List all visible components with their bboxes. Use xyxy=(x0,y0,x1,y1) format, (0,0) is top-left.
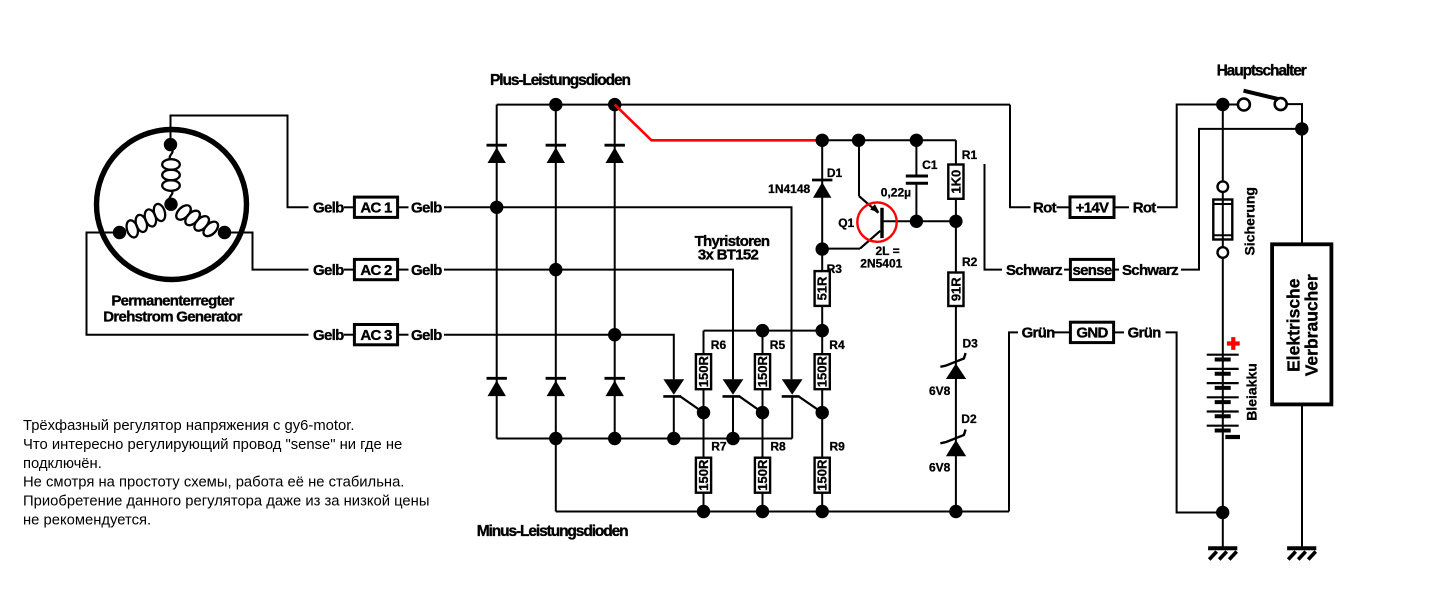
wire load box to ground xyxy=(1301,404,1303,548)
wire AC1 box to Gelb xyxy=(398,206,409,208)
wire Schwarz to sense box xyxy=(1064,269,1070,271)
svg-text:Hauptschalter: Hauptschalter xyxy=(1217,63,1307,80)
junction gate Th1 xyxy=(697,406,710,419)
svg-text:AC 2: AC 2 xyxy=(360,262,392,279)
junction AC1 col1 xyxy=(490,201,503,214)
svg-text:D1: D1 xyxy=(827,166,843,180)
generator G1 body circle xyxy=(97,130,247,280)
fuse terminal circle top xyxy=(1218,181,1229,192)
junction base row R1/R2 xyxy=(949,215,962,228)
ground symbol load xyxy=(1287,546,1316,550)
svg-text:Elektrische: Elektrische xyxy=(1283,278,1303,372)
svg-text:R7: R7 xyxy=(711,440,727,454)
svg-text:Что интересно регулирующий про: Что интересно регулирующий провод "sense… xyxy=(23,437,402,453)
svg-text:6V8: 6V8 xyxy=(929,460,951,474)
svg-text:Schwarz: Schwarz xyxy=(1122,262,1178,279)
wire R2 column xyxy=(955,221,957,511)
wire AC2 row to bridge and thyristor Th2 anode xyxy=(444,270,733,380)
wire generator top to AC1 row xyxy=(171,116,309,208)
junction minus bus x=614.7 xyxy=(608,432,621,445)
wire AC1 row to bridge and thyristor Th3 anode xyxy=(444,207,792,379)
svg-text:Gelb: Gelb xyxy=(411,327,442,344)
svg-text:R5: R5 xyxy=(770,338,786,352)
svg-text:D3: D3 xyxy=(963,337,979,351)
minus output rail xyxy=(556,511,1009,513)
svg-text:3x BT152: 3x BT152 xyxy=(698,247,759,264)
minus power diode D-3 xyxy=(605,377,625,380)
svg-text:Sicherung: Sicherung xyxy=(1241,187,1257,255)
resistor R1 1K0 xyxy=(948,165,963,199)
wire AC3 row to bridge xyxy=(444,334,615,336)
svg-text:1K0: 1K0 xyxy=(948,170,963,194)
svg-text:R9: R9 xyxy=(830,440,846,454)
wire through fuse xyxy=(1222,192,1224,247)
svg-text:Трёхфазный регулятор напряжени: Трёхфазный регулятор напряжения с gy6-mo… xyxy=(23,418,354,434)
wire Rot to +14V box xyxy=(1057,206,1071,208)
svg-text:150R: 150R xyxy=(815,459,830,491)
svg-text:Q1: Q1 xyxy=(838,216,854,230)
wire generator right to AC2 row xyxy=(225,233,309,270)
wire control rail to R1 xyxy=(955,140,957,221)
plus rail (top bus) xyxy=(497,104,1010,106)
wire switch to load rail xyxy=(1287,104,1302,245)
junction control rail D1 xyxy=(816,134,829,147)
wire generator left to AC3 row xyxy=(87,233,309,335)
svg-text:R6: R6 xyxy=(711,338,727,352)
generator terminal node left xyxy=(113,226,126,239)
junction AC2 col2 xyxy=(549,263,562,276)
fuse terminal circle bottom xyxy=(1218,247,1229,258)
battery plus sign xyxy=(1227,337,1240,350)
capacitor C1 0,22u xyxy=(915,140,917,175)
red wire from plus rail to regulator xyxy=(615,105,823,141)
wire Gruen to GND box xyxy=(1054,331,1070,333)
svg-text:Schwarz: Schwarz xyxy=(1006,262,1062,279)
svg-text:91R: 91R xyxy=(948,277,963,301)
svg-text:Bleiakku: Bleiakku xyxy=(1243,363,1259,421)
wire sense box to Schwarz xyxy=(1114,269,1119,271)
wire plus rail down to +14V row xyxy=(1010,105,1031,208)
load box Elektrische Verbraucher xyxy=(1272,244,1331,404)
svg-text:Grün: Grün xyxy=(1128,325,1162,342)
wire GND row to battery minus xyxy=(1166,332,1223,512)
svg-text:AC 1: AC 1 xyxy=(360,200,392,217)
wire phase column 2 xyxy=(555,105,557,512)
svg-text:Gelb: Gelb xyxy=(313,327,344,344)
terminal box sense xyxy=(1070,259,1113,279)
sense stub wire (unconnected) xyxy=(985,164,1003,270)
transistor Q1 2N5401 xyxy=(858,140,860,196)
terminal box GND xyxy=(1070,322,1113,342)
wire minus rail up to GND row xyxy=(1009,332,1018,511)
generator terminal node right xyxy=(218,226,231,239)
resistor R2 91R xyxy=(948,273,963,307)
wire phase column 3 xyxy=(614,105,616,439)
wire phase column 1 xyxy=(496,105,498,439)
svg-text:0,22µ: 0,22µ xyxy=(881,186,911,200)
svg-text:подключён.: подключён. xyxy=(23,456,102,472)
wire R6 column xyxy=(703,331,705,512)
svg-text:R1: R1 xyxy=(962,148,978,162)
junction gate Th2 xyxy=(756,406,769,419)
terminal box +14V xyxy=(1070,197,1114,218)
svg-text:150R: 150R xyxy=(696,356,711,388)
junction base row C1 xyxy=(910,215,923,228)
svg-text:не рекомендуется.: не рекомендуется. xyxy=(23,513,151,529)
resistor R3 51R xyxy=(815,271,830,306)
diode D1 1N4148 xyxy=(821,140,823,249)
svg-text:Rot: Rot xyxy=(1133,200,1157,217)
main switch S1 contact right xyxy=(1275,98,1287,110)
svg-text:GND: GND xyxy=(1076,325,1108,342)
svg-text:150R: 150R xyxy=(755,459,770,491)
resistor R6 150R xyxy=(696,354,711,389)
junction switch node xyxy=(1216,98,1229,111)
generator star point node xyxy=(164,198,177,211)
control rail xyxy=(822,139,956,141)
junction plus rail col2 xyxy=(549,98,562,111)
svg-text:150R: 150R xyxy=(696,459,711,491)
svg-text:2N5401: 2N5401 xyxy=(860,257,902,271)
plus power diode D+3 xyxy=(605,144,625,147)
junction minus rail x=703.5 xyxy=(697,505,710,518)
plus power diode D+1 xyxy=(487,144,507,147)
thyristor Th1 (BT152) xyxy=(663,379,684,395)
ground symbol battery xyxy=(1208,546,1237,550)
svg-text:150R: 150R xyxy=(755,356,770,388)
wire AC3 node to thyristor Th1 anode xyxy=(615,335,674,380)
svg-text:Не смотря на простоту схемы, р: Не смотря на простоту схемы, работа её н… xyxy=(23,475,404,491)
svg-text:51R: 51R xyxy=(815,276,830,300)
svg-text:Drehstrom Generator: Drehstrom Generator xyxy=(103,308,242,325)
svg-text:sense: sense xyxy=(1072,262,1111,279)
junction minus rail x=762.5 xyxy=(756,505,769,518)
resistor R9 150R xyxy=(815,458,830,493)
wire GND box to Gruen xyxy=(1114,331,1124,333)
thyristor Th2 (BT152) xyxy=(723,379,744,395)
wire fuse to battery xyxy=(1222,258,1224,549)
junction minus rail x=955.9 xyxy=(949,505,962,518)
plus power diode D+2 xyxy=(546,144,566,147)
terminal box AC3 xyxy=(354,325,397,345)
svg-text:Приобретение данного регулятор: Приобретение данного регулятора даже из … xyxy=(23,494,429,510)
svg-text:Gelb: Gelb xyxy=(313,262,344,279)
svg-text:C1: C1 xyxy=(922,158,938,172)
generator winding L1 (top coil) xyxy=(162,159,180,170)
svg-text:Plus-Leistungsdioden: Plus-Leistungsdioden xyxy=(490,72,631,89)
main switch S1 lever xyxy=(1244,91,1279,99)
battery B1 cells xyxy=(1207,354,1239,356)
svg-text:150R: 150R xyxy=(815,356,830,388)
svg-text:Gelb: Gelb xyxy=(411,262,442,279)
wire +14V box to Rot xyxy=(1114,206,1129,208)
battery minus sign xyxy=(1225,435,1240,439)
svg-text:+14V: +14V xyxy=(1076,200,1109,217)
junction D1 anode node xyxy=(816,242,829,255)
wire D1 node to R3 xyxy=(821,249,823,331)
junction control rail Q1 emitter xyxy=(852,134,865,147)
junction minus rail x=822.2 xyxy=(816,505,829,518)
junction minus bus x=673.8 xyxy=(667,432,680,445)
svg-text:6V8: 6V8 xyxy=(929,384,951,398)
main switch S1 contact left xyxy=(1238,99,1250,111)
minus diode bus xyxy=(497,438,793,440)
wire Gelb to AC1 box xyxy=(344,206,354,208)
resistor R7 150R xyxy=(696,458,711,493)
svg-text:AC 3: AC 3 xyxy=(360,327,392,344)
wire switch node to contact xyxy=(1223,104,1238,106)
junction load rail sense tap xyxy=(1295,122,1308,135)
svg-text:Verbraucher: Verbraucher xyxy=(1302,274,1322,376)
junction gate rail R5 xyxy=(756,324,769,337)
terminal box AC2 xyxy=(354,259,397,279)
zener diode D3 6V8 xyxy=(946,364,966,380)
minus power diode D-1 xyxy=(487,377,507,380)
svg-text:Permanenterregter: Permanenterregter xyxy=(111,292,234,309)
wire AC2 box to Gelb xyxy=(398,269,409,271)
fuse F1 body xyxy=(1213,200,1232,240)
wire AC3 box to Gelb xyxy=(398,334,409,336)
generator winding L2 (left coil) xyxy=(152,203,167,223)
wire R5 column xyxy=(762,331,764,512)
wire +14V to main switch xyxy=(1157,105,1223,208)
generator terminal node top xyxy=(164,138,177,151)
junction plus rail col3 xyxy=(608,98,621,111)
resistor R4 150R xyxy=(815,354,830,389)
wire switch node down to fuse xyxy=(1222,105,1224,182)
resistor R5 150R xyxy=(755,354,770,389)
generator winding L3 (right coil) xyxy=(174,203,194,223)
junction gate rail R3/R4 xyxy=(816,324,829,337)
gate rail xyxy=(704,330,823,332)
svg-text:R4: R4 xyxy=(829,338,845,352)
wire Gelb to AC3 box xyxy=(344,334,354,336)
Q1 highlight circle xyxy=(857,202,896,241)
svg-text:Minus-Leistungsdioden: Minus-Leistungsdioden xyxy=(477,523,628,540)
junction control rail C1 xyxy=(910,134,923,147)
zener diode D2 6V8 xyxy=(946,440,966,456)
svg-text:Rot: Rot xyxy=(1033,200,1057,217)
svg-text:Gelb: Gelb xyxy=(411,200,442,217)
svg-text:R8: R8 xyxy=(770,440,786,454)
svg-text:R2: R2 xyxy=(962,255,978,269)
wire sense row to load rail xyxy=(1181,129,1302,270)
svg-text:Gelb: Gelb xyxy=(313,200,344,217)
resistor R8 150R xyxy=(755,458,770,493)
svg-text:1N4148: 1N4148 xyxy=(768,182,810,196)
junction battery minus node xyxy=(1216,506,1229,519)
junction AC3 col3 xyxy=(608,328,621,341)
terminal box AC1 xyxy=(354,197,397,217)
svg-text:D2: D2 xyxy=(961,412,977,426)
svg-text:Grün: Grün xyxy=(1022,325,1056,342)
junction minus bus x=555.8 xyxy=(549,432,562,445)
junction gate Th3 xyxy=(816,406,829,419)
junction minus bus x=733 xyxy=(726,432,739,445)
thyristor Th3 (BT152) xyxy=(782,379,803,395)
wire Gelb to AC2 box xyxy=(344,269,354,271)
wire R4 column xyxy=(821,331,823,512)
minus power diode D-2 xyxy=(546,377,566,380)
